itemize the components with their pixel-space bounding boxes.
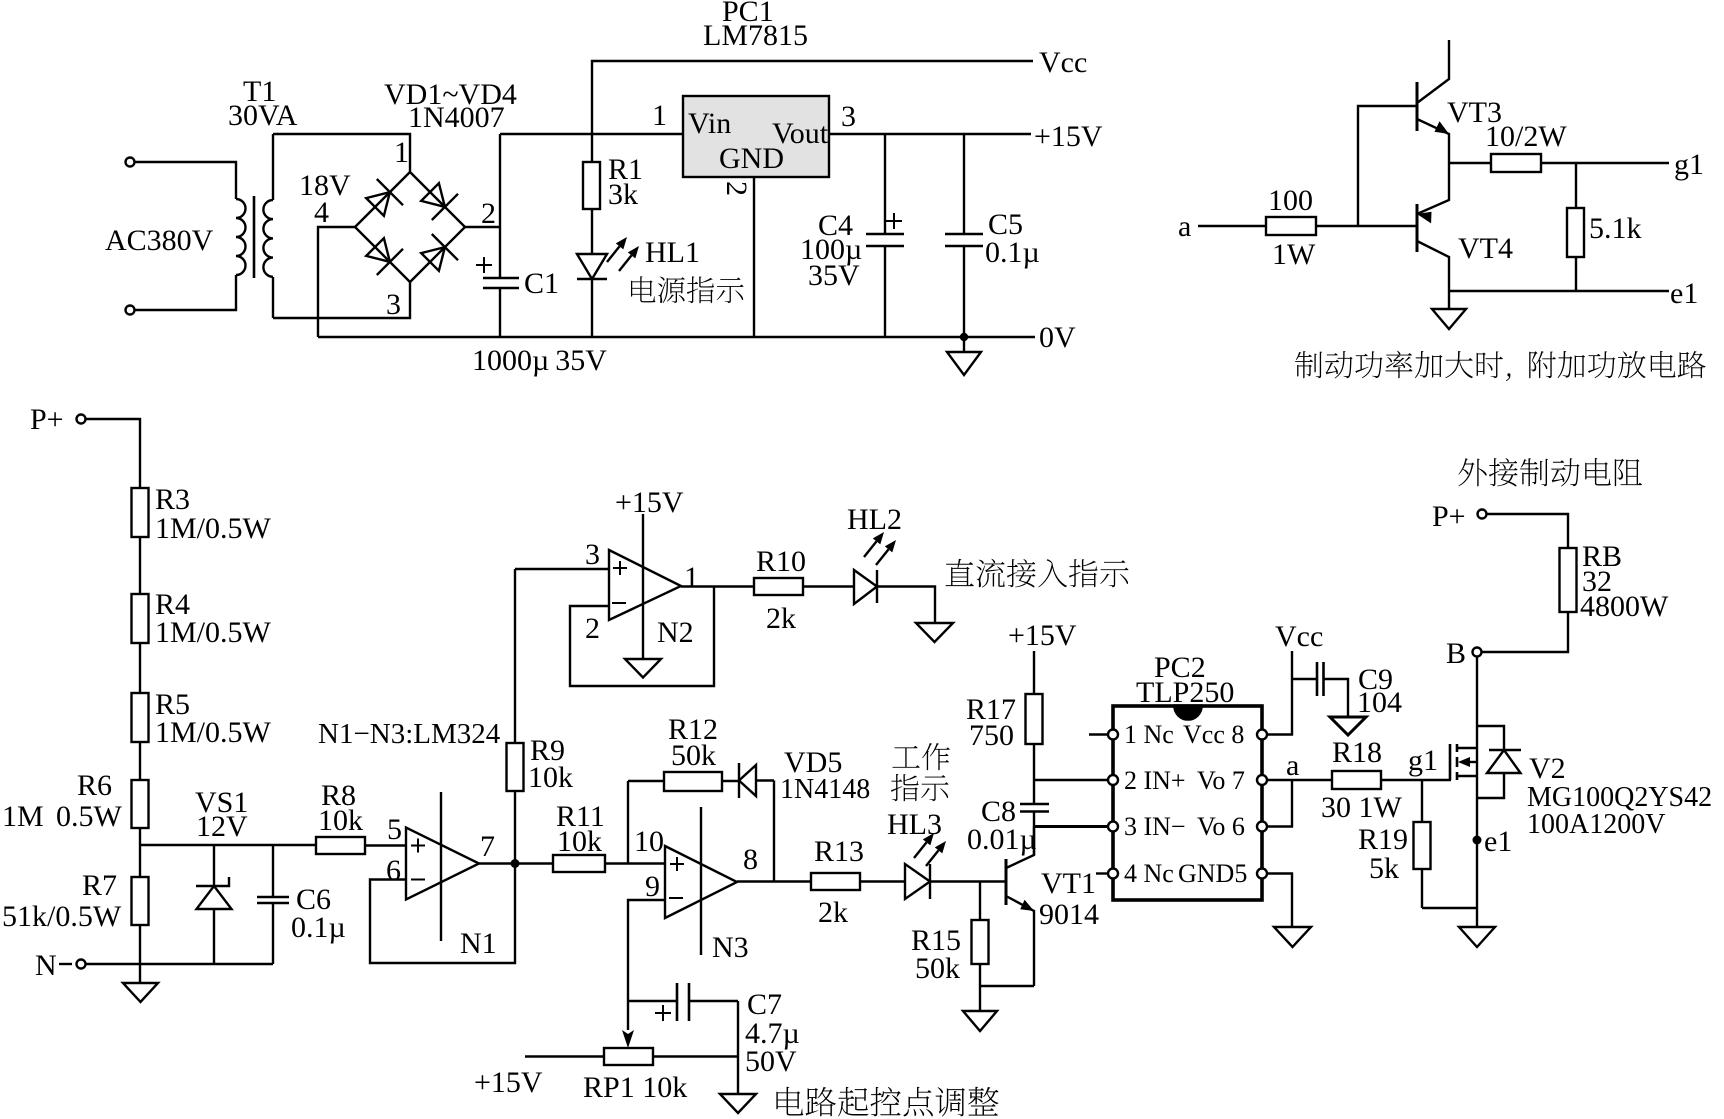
wire 0V rail bbox=[318, 336, 1035, 338]
label PC2 TLP250 bbox=[1136, 651, 1234, 709]
svg-text:3: 3 bbox=[585, 538, 600, 571]
capacitor C1 bbox=[483, 134, 519, 337]
zener VS1 bbox=[196, 845, 232, 964]
svg-text:R13: R13 bbox=[814, 835, 864, 868]
svg-text:a: a bbox=[1286, 749, 1299, 782]
label VD5 1N4148 bbox=[780, 746, 870, 805]
wire divider node to R8 bbox=[140, 844, 316, 846]
label R5 1M/0.5W bbox=[155, 688, 272, 749]
svg-text:3 IN−: 3 IN− bbox=[1124, 812, 1186, 841]
svg-text:4 Nc: 4 Nc bbox=[1124, 859, 1174, 888]
LED HL1 bbox=[577, 237, 639, 337]
svg-text:5: 5 bbox=[387, 813, 402, 846]
wire PC1 GND pin bbox=[753, 177, 755, 337]
wire AC input top bbox=[135, 162, 237, 199]
label RB 32 4800W bbox=[1580, 540, 1669, 623]
wire R11 to N3 pin10 bbox=[605, 862, 665, 864]
wire N1 feedback loop bbox=[370, 864, 515, 964]
label V2 MG100Q2YS42 100A1200V bbox=[1527, 752, 1712, 840]
diode V2 freewheel bbox=[1477, 726, 1521, 798]
caption gongzuo zhishi bbox=[891, 743, 950, 801]
terminal B bbox=[1446, 637, 1482, 670]
svg-text:R6: R6 bbox=[77, 769, 112, 802]
resistor 100 1W bbox=[1266, 217, 1316, 235]
diode VD1 arm 4-1 bbox=[366, 179, 403, 216]
junction N1 output bbox=[511, 859, 520, 868]
IGBT V2 bbox=[1450, 657, 1477, 909]
diode VD4 arm 3-2 bbox=[421, 234, 458, 271]
ground divider bbox=[123, 964, 158, 1002]
svg-text:3k: 3k bbox=[608, 178, 638, 211]
transistor VT4 bbox=[1417, 163, 1449, 291]
wire riser to R12 bbox=[628, 780, 664, 782]
ground PC2 bbox=[1274, 927, 1311, 947]
svg-text:2: 2 bbox=[481, 197, 496, 230]
wire pin6 riser bbox=[1267, 780, 1292, 827]
ground HL2 bbox=[916, 623, 953, 642]
caption dianyuan zhishi bbox=[631, 276, 744, 303]
svg-text:P+: P+ bbox=[1432, 500, 1466, 533]
svg-text:GND: GND bbox=[719, 142, 784, 175]
wire R8 to N1 pin5 bbox=[365, 844, 406, 846]
ground aux amplifier bbox=[1432, 291, 1466, 329]
svg-text:N1−N3:LM324: N1−N3:LM324 bbox=[318, 718, 501, 750]
ground N2 bbox=[625, 659, 661, 678]
caption zhiliu jieru zhishi bbox=[946, 559, 1129, 588]
ground RP1 bbox=[720, 1094, 756, 1113]
svg-text:+15V: +15V bbox=[1008, 619, 1077, 652]
svg-text:0.1µ: 0.1µ bbox=[291, 911, 346, 944]
svg-text:HL1: HL1 bbox=[645, 236, 700, 269]
stub pin 4 bbox=[1096, 872, 1108, 874]
wire e1 rail bbox=[1449, 290, 1669, 292]
resistor R3 bbox=[132, 488, 149, 537]
potentiometer RP1 bbox=[525, 1001, 738, 1065]
wire pin8 to Vcc bbox=[1267, 651, 1292, 735]
label R3 1M/0.5W bbox=[155, 483, 272, 545]
wire +15V to R17 bbox=[1033, 651, 1035, 694]
transformer T1 core bbox=[253, 196, 256, 278]
resistor R4 bbox=[132, 594, 149, 643]
resistor R17 bbox=[1026, 694, 1043, 744]
wire VD5 to N3 output bbox=[773, 781, 775, 883]
svg-text:10k: 10k bbox=[528, 761, 573, 794]
svg-text:3: 3 bbox=[386, 288, 401, 321]
svg-text:50k: 50k bbox=[915, 952, 960, 985]
capacitor C5 bbox=[945, 134, 983, 337]
svg-text:N: N bbox=[35, 949, 57, 982]
resistor 10/2W bbox=[1491, 154, 1541, 172]
terminal P+ right bbox=[1432, 500, 1487, 533]
svg-text:750: 750 bbox=[969, 719, 1014, 752]
wire 10/2W to g1 bbox=[1541, 162, 1669, 164]
svg-text:B: B bbox=[1446, 637, 1466, 670]
svg-text:e1: e1 bbox=[1670, 277, 1698, 310]
label R11 10k bbox=[556, 800, 605, 858]
wire R3-R4 bbox=[139, 537, 141, 594]
svg-text:1M: 1M bbox=[2, 800, 44, 833]
wire R10 to HL2 bbox=[803, 585, 854, 587]
ground C9 bbox=[1330, 717, 1366, 735]
label C8 0.01u bbox=[967, 795, 1037, 856]
transformer T1 secondary winding bbox=[263, 200, 273, 277]
label C4 plus bbox=[886, 213, 902, 229]
label R15 50k bbox=[911, 924, 961, 985]
label R13 2k bbox=[814, 835, 864, 929]
optocoupler PC2 TLP250 body bbox=[1113, 706, 1262, 900]
bridge rectifier VD1~VD4 diamond bbox=[355, 172, 465, 282]
wire secondary bottom to bridge node 3 bbox=[273, 282, 410, 318]
label C9 104 bbox=[1357, 663, 1402, 719]
svg-text:Vcc: Vcc bbox=[1275, 620, 1323, 653]
resistor R19 bbox=[1414, 780, 1431, 908]
svg-text:9014: 9014 bbox=[1039, 898, 1099, 931]
wire emitter node to 10/2W bbox=[1449, 162, 1491, 164]
pin circle 6 bbox=[1257, 822, 1267, 832]
resistor R6 bbox=[132, 780, 149, 828]
wire R18 to g1 bbox=[1381, 779, 1451, 781]
regulator PC1 LM7815 body bbox=[683, 96, 829, 177]
wire R9 to N2 pin3 bbox=[515, 568, 609, 570]
svg-text:GND5: GND5 bbox=[1178, 859, 1247, 888]
label VS1 12V bbox=[195, 786, 248, 843]
svg-text:30 1W: 30 1W bbox=[1321, 791, 1403, 824]
svg-text:2: 2 bbox=[720, 181, 753, 196]
pin labels PC2 row 2 bbox=[1124, 766, 1245, 795]
svg-text:TLP250: TLP250 bbox=[1136, 676, 1234, 709]
label VT1 9014 bbox=[1039, 867, 1099, 931]
ground VT1 bbox=[963, 1011, 997, 1031]
op-amp N2 bbox=[609, 514, 681, 659]
svg-text:6: 6 bbox=[386, 854, 401, 887]
resistor R15 bbox=[972, 882, 989, 1012]
svg-text:+15V: +15V bbox=[615, 486, 684, 519]
svg-text:100A1200V: 100A1200V bbox=[1527, 809, 1665, 840]
svg-text:1: 1 bbox=[394, 136, 409, 169]
svg-text:5.1k: 5.1k bbox=[1589, 212, 1642, 245]
svg-text:HL2: HL2 bbox=[847, 503, 902, 536]
junction 0V ground bbox=[960, 333, 968, 341]
wire pin7 to R18 bbox=[1267, 779, 1332, 781]
svg-text:N1: N1 bbox=[460, 927, 497, 960]
ground V2 bbox=[1459, 908, 1495, 947]
wire HL3 to VT1 base bbox=[930, 880, 1006, 882]
pin circle 1 bbox=[1108, 730, 1118, 740]
label C4 100u 35V bbox=[800, 209, 862, 292]
svg-text:R7: R7 bbox=[82, 869, 117, 902]
resistor R11 bbox=[553, 855, 605, 872]
svg-text:g1: g1 bbox=[1408, 744, 1438, 777]
wire R4-R5 bbox=[139, 643, 141, 693]
label C5 0.1u bbox=[985, 208, 1040, 269]
svg-text:R18: R18 bbox=[1332, 736, 1382, 769]
svg-text:Vin: Vin bbox=[688, 107, 731, 140]
label R6 1M 0.5W bbox=[2, 769, 123, 833]
wire HL2 to ground bbox=[877, 587, 935, 624]
svg-text:1000µ 35V: 1000µ 35V bbox=[472, 344, 607, 377]
pin circle 4 bbox=[1108, 869, 1118, 879]
caption dianlu qikongdian tiaozheng bbox=[776, 1087, 998, 1117]
resistor R10 bbox=[754, 578, 803, 595]
svg-text:Vcc 8: Vcc 8 bbox=[1183, 720, 1244, 749]
label R17 750 bbox=[966, 693, 1016, 752]
label C6 0.1u bbox=[291, 883, 346, 944]
svg-text:2k: 2k bbox=[818, 896, 848, 929]
label R12 50k bbox=[668, 713, 718, 772]
label 100 1W bbox=[1268, 184, 1316, 271]
label R19 5k bbox=[1358, 823, 1408, 885]
svg-text:V2: V2 bbox=[1529, 752, 1566, 785]
resistor R5 bbox=[132, 693, 149, 742]
wire 5.1k to e1 rail bbox=[1575, 257, 1577, 291]
svg-text:1M/0.5W: 1M/0.5W bbox=[155, 716, 272, 749]
terminal P+ bbox=[30, 403, 86, 436]
svg-text:0.01µ: 0.01µ bbox=[967, 823, 1037, 856]
resistor R8 bbox=[316, 837, 365, 854]
svg-text:100: 100 bbox=[1268, 184, 1313, 217]
wire pin3 link bbox=[1034, 825, 1113, 828]
wire pin5 to ground bbox=[1267, 874, 1292, 928]
wire R6 to node bbox=[139, 828, 141, 845]
svg-text:1N4007: 1N4007 bbox=[408, 101, 505, 134]
wire secondary top to bridge node 1 bbox=[273, 134, 410, 172]
svg-text:1W: 1W bbox=[1272, 238, 1316, 271]
svg-text:0V: 0V bbox=[1039, 321, 1076, 354]
wire N2 feedback loop bbox=[570, 586, 714, 686]
svg-text:LM7815: LM7815 bbox=[703, 19, 808, 52]
op-amp N3 bbox=[665, 807, 737, 955]
svg-text:50k: 50k bbox=[671, 739, 716, 772]
resistor R7 bbox=[132, 845, 149, 964]
wire hysteresis riser bbox=[627, 781, 629, 864]
wire P+ to RB bbox=[1487, 514, 1569, 548]
svg-text:P+: P+ bbox=[30, 403, 64, 436]
wire Vcc tap bbox=[592, 61, 1033, 162]
resistor RB bbox=[1560, 548, 1577, 612]
wire pin2 link bbox=[1034, 779, 1113, 781]
svg-text:51k/0.5W: 51k/0.5W bbox=[2, 900, 122, 933]
wire R19 to emitter rail bbox=[1422, 907, 1477, 909]
svg-text:R10: R10 bbox=[756, 545, 806, 578]
svg-text:RP1 10k: RP1 10k bbox=[583, 1071, 687, 1104]
svg-text:N2: N2 bbox=[657, 616, 694, 649]
resistor R9 bbox=[507, 569, 524, 864]
wire R12 to VD5 bbox=[722, 780, 739, 782]
svg-text:a: a bbox=[1178, 210, 1191, 243]
pin labels PC2 row 3 bbox=[1124, 812, 1245, 841]
svg-text:1 Nc: 1 Nc bbox=[1124, 720, 1174, 749]
wire AC input bottom bbox=[135, 275, 237, 310]
svg-text:7: 7 bbox=[480, 830, 495, 863]
svg-text:8: 8 bbox=[743, 843, 758, 876]
svg-text:50V: 50V bbox=[745, 1045, 797, 1078]
svg-text:N3: N3 bbox=[712, 931, 749, 964]
svg-text:1M/0.5W: 1M/0.5W bbox=[155, 616, 272, 649]
svg-text:+15V: +15V bbox=[474, 1066, 543, 1099]
pin labels PC2 row 4 bbox=[1124, 859, 1247, 888]
label R4 1M/0.5W bbox=[155, 588, 272, 649]
svg-text:Vo 7: Vo 7 bbox=[1197, 766, 1245, 795]
svg-text:5k: 5k bbox=[1369, 852, 1399, 885]
pin circle 8 bbox=[1257, 730, 1267, 740]
label R18 30 1W bbox=[1321, 736, 1403, 824]
svg-text:0.5W: 0.5W bbox=[56, 800, 123, 833]
LED HL3 bbox=[905, 833, 946, 899]
svg-text:3: 3 bbox=[841, 100, 856, 133]
stub pin 1 bbox=[1089, 733, 1108, 735]
svg-text:VT1: VT1 bbox=[1041, 867, 1096, 900]
resistor R1 bbox=[583, 162, 600, 209]
pin labels PC2 row 1 bbox=[1124, 720, 1244, 749]
svg-text:g1: g1 bbox=[1674, 148, 1704, 181]
wire R5-R6 bbox=[139, 742, 141, 780]
svg-text:+15V: +15V bbox=[1034, 120, 1103, 153]
wire C7 right to RP1 right bbox=[737, 1001, 739, 1094]
svg-text:104: 104 bbox=[1357, 686, 1402, 719]
capacitor C9 bbox=[1292, 662, 1348, 717]
transistor VT1 bbox=[1006, 827, 1034, 987]
pin circle 7 bbox=[1257, 775, 1267, 785]
svg-text:1M/0.5W: 1M/0.5W bbox=[155, 512, 272, 545]
wire R1 to HL1 bbox=[591, 209, 593, 254]
svg-text:35V: 35V bbox=[808, 259, 860, 292]
pin circle 2 bbox=[1108, 775, 1118, 785]
svg-text:VT4: VT4 bbox=[1458, 232, 1513, 265]
svg-text:1: 1 bbox=[684, 561, 699, 594]
wire node 2 to C1 bbox=[465, 226, 500, 228]
svg-text:C1: C1 bbox=[524, 267, 559, 300]
resistor R12 bbox=[664, 772, 722, 791]
resistor 5.1k bbox=[1567, 208, 1584, 257]
svg-text:2 IN+: 2 IN+ bbox=[1124, 766, 1186, 795]
wire N3 pin9 bbox=[628, 900, 665, 1001]
wire R15 emitter link bbox=[980, 985, 1034, 987]
wire N2 output to R10 bbox=[681, 585, 754, 587]
wire R17 to pin2 node bbox=[1033, 744, 1035, 780]
terminal AC input top bbox=[126, 158, 135, 167]
caption waijie zhidong dianzu bbox=[1458, 458, 1642, 487]
pin circle 5 bbox=[1257, 869, 1267, 879]
label C7 4.7u 50V bbox=[745, 988, 800, 1078]
diode VD5 bbox=[739, 763, 774, 798]
pin circle 3 bbox=[1108, 822, 1118, 832]
wire a to 100 resistor bbox=[1198, 225, 1266, 227]
terminal AC input bottom bbox=[126, 306, 135, 315]
svg-text:4: 4 bbox=[314, 196, 329, 229]
junction e1 bbox=[1473, 836, 1482, 845]
svg-text:12V: 12V bbox=[196, 810, 248, 843]
wire C8 to VT1 collector bbox=[1033, 827, 1035, 856]
svg-text:30VA: 30VA bbox=[228, 99, 298, 132]
resistor R18 bbox=[1332, 771, 1381, 789]
svg-text:4800W: 4800W bbox=[1580, 590, 1669, 623]
wire R13 to HL3 bbox=[860, 880, 905, 882]
diode VD2 arm 1-2 bbox=[421, 183, 458, 220]
wire N rail bbox=[86, 963, 274, 965]
capacitor C6 bbox=[257, 845, 289, 964]
LED HL2 bbox=[854, 532, 896, 604]
wire 100 to VT4 base bbox=[1316, 225, 1417, 227]
wire N1 output bbox=[479, 862, 553, 864]
wire secondary left side bbox=[272, 134, 274, 318]
wire RB to B node bbox=[1482, 612, 1569, 652]
label R10 2k bbox=[756, 545, 806, 635]
diode VD3 arm 4-3 bbox=[366, 238, 403, 275]
svg-text:1: 1 bbox=[652, 99, 667, 132]
transistor VT3 bbox=[1417, 40, 1449, 163]
svg-text:Vo 6: Vo 6 bbox=[1197, 812, 1245, 841]
label R9 10k bbox=[528, 734, 573, 794]
svg-text:10k: 10k bbox=[557, 825, 602, 858]
label C7 plus bbox=[655, 1005, 671, 1021]
wire node 4 to 0V rail bbox=[318, 227, 355, 337]
capacitor C8 bbox=[1020, 780, 1049, 827]
svg-text:Vcc: Vcc bbox=[1039, 46, 1087, 79]
wire rectified rail to PC1 Vin bbox=[500, 133, 683, 135]
ground power supply bbox=[947, 337, 981, 375]
svg-text:HL3: HL3 bbox=[887, 808, 942, 841]
op-amp N1 bbox=[406, 792, 479, 941]
svg-text:10/2W: 10/2W bbox=[1485, 120, 1567, 153]
label R7 51k/0.5W bbox=[2, 869, 122, 933]
label C1 plus bbox=[476, 257, 492, 273]
svg-text:2k: 2k bbox=[766, 602, 796, 635]
svg-text:10k: 10k bbox=[318, 804, 363, 837]
terminal N- bbox=[35, 949, 86, 982]
wire N3 output to R13 bbox=[737, 880, 811, 882]
capacitor C7 bbox=[628, 983, 738, 1021]
svg-text:0.1µ: 0.1µ bbox=[985, 236, 1040, 269]
svg-text:10: 10 bbox=[634, 825, 664, 858]
wire PC1 Vout to +15V bbox=[829, 133, 1031, 135]
wire to 5.1k bbox=[1575, 163, 1577, 208]
wire base riser to VT3 bbox=[1358, 106, 1417, 226]
svg-text:2: 2 bbox=[585, 612, 600, 645]
svg-text:AC380V: AC380V bbox=[105, 224, 214, 257]
svg-text:e1: e1 bbox=[1484, 825, 1512, 858]
label R8 10k bbox=[318, 779, 363, 837]
transformer T1 primary winding bbox=[236, 199, 246, 275]
capacitor C4 bbox=[866, 134, 904, 337]
svg-text:1N4148: 1N4148 bbox=[780, 774, 870, 805]
svg-text:9: 9 bbox=[645, 870, 660, 903]
caption zhidong gonglv jiada shi fujia gongfang dianlu bbox=[1295, 351, 1706, 381]
wire P+ to R3 bbox=[86, 419, 141, 488]
resistor R13 bbox=[811, 873, 860, 890]
